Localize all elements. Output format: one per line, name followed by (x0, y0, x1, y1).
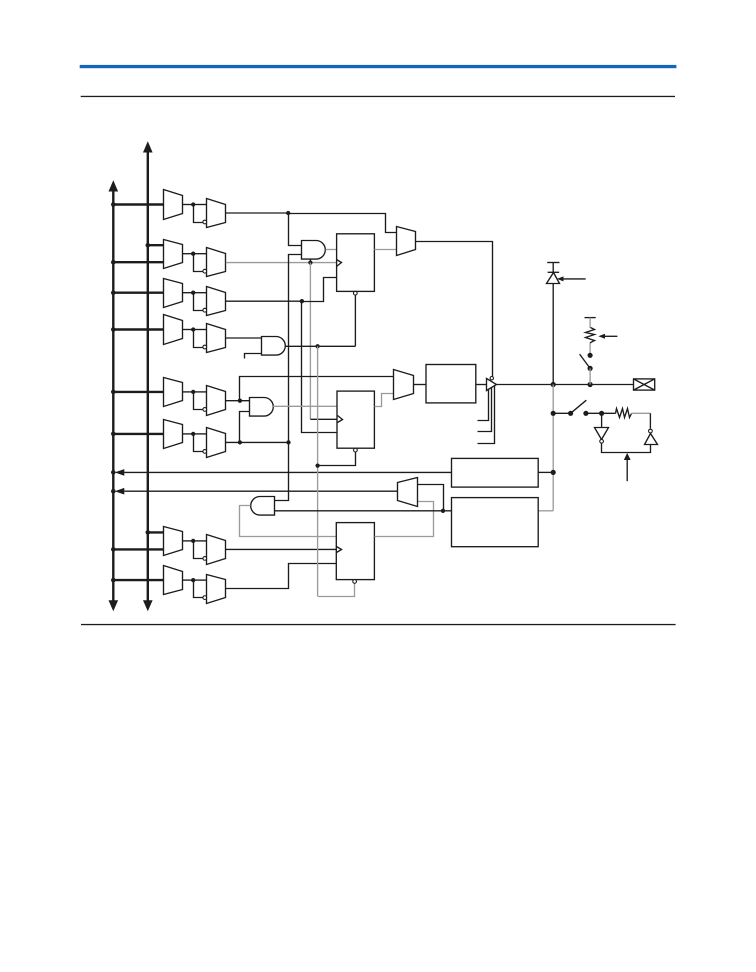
AND gate U3 (reset) (245, 337, 286, 359)
flip-flop FF1 (data register bit) (337, 234, 397, 295)
input buffer block (to bus arrow) (452, 458, 554, 487)
tri-state driver T3 (pin read, mirrored) (398, 478, 418, 507)
bus tap row 8 (111, 578, 164, 583)
data bus 2 (second vertical bus) (143, 141, 153, 611)
output control block (426, 365, 486, 403)
AND gate U1 (write strobe) (302, 241, 337, 260)
net row8 -> FF3 lower input (226, 564, 337, 589)
buffer pair row 2 (driver + enable buffer) (164, 240, 226, 277)
net row5 -> AND U2 / tri-state T2 enable (226, 377, 394, 403)
buffer pair row 1 (driver + enable buffer) (164, 190, 226, 228)
bus tap row 3 (111, 290, 164, 295)
blue header rule (80, 65, 677, 68)
flip-flop FF2 (direction register bit) (337, 391, 394, 452)
buffer pair row 7 (driver + enable buffer) (164, 527, 226, 565)
keeper inverter (up) (645, 429, 658, 444)
pad driver buffer with enable bubble (487, 377, 497, 391)
bus tap row 1 (111, 202, 164, 207)
buffer pair row 5 (driver + enable buffer) (164, 378, 226, 416)
bus tap row 7 (111, 530, 164, 552)
buffer pair row 4 (driver + enable buffer) (164, 315, 226, 353)
pull-up select arrow (598, 334, 617, 339)
net row3 -> FF1 lower input / FF2 lower input (226, 278, 338, 433)
black header rule (81, 96, 675, 97)
AND gate U4 (input gate, mirrored) (240, 497, 337, 537)
net row6 -> AND U2 / AND U1 / AND U4 (226, 255, 302, 501)
reset net from U3 to FF1/FF2/FF3 clear bubbles (286, 295, 356, 596)
bus tap row 5 (111, 390, 164, 395)
read-path arrow into bus (upper, from input register) (111, 469, 452, 476)
keeper enable arrow (624, 453, 631, 481)
buffer pair row 3 (driver + enable buffer) (164, 279, 226, 316)
driver control stubs (478, 386, 495, 444)
bus tap row 4 (111, 327, 164, 332)
buffer pair row 8 (driver + enable buffer) (164, 566, 226, 604)
pull-up switch (580, 353, 593, 385)
pin sense net (gray) to read buffers (538, 385, 556, 511)
keeper inverter (down) (595, 413, 651, 452)
read-path arrow into bus (lower, from pin read buffer) (111, 488, 398, 495)
synchronizer output net -> U4 / T3 (274, 485, 451, 513)
diode select arrow (557, 276, 586, 281)
tri-state driver T1 (output data) (397, 227, 493, 377)
bottom rule (81, 624, 676, 625)
net row1 -> AND U1 / tri-state T1 enable (226, 211, 397, 246)
net row4 -> AND U3 input (226, 337, 262, 339)
bus tap row 6 (111, 432, 164, 437)
AND gate U2 (write strobe 2) (250, 398, 338, 417)
keeper switch (553, 400, 615, 416)
protection diode to VDD (547, 263, 560, 385)
input synchronizer block (452, 498, 539, 547)
net row7 -> FF3 clock (226, 548, 336, 550)
flip-flop FF3 (pull-up enable bit) (336, 502, 433, 584)
bond pad (634, 379, 655, 390)
keeper resistor (616, 409, 651, 429)
buffer pair row 6 (driver + enable buffer) (164, 420, 226, 458)
pin net wire (497, 382, 634, 387)
bus tap row 2 (111, 243, 164, 265)
tri-state driver T2 (direction) (394, 370, 427, 400)
pull-up resistor to VDD (585, 318, 596, 356)
net row2 clock (gray) -> FF1 clock / FF2 clock (226, 259, 337, 419)
data bus 1 (left vertical bus) (109, 180, 119, 611)
